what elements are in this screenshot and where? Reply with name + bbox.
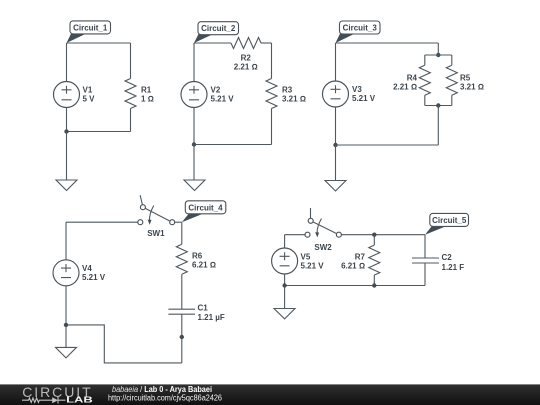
svg-text:6.21 Ω: 6.21 Ω bbox=[341, 262, 365, 271]
wire: circuit1 ground lead bbox=[66, 132, 68, 181]
svg-text:Circuit_5: Circuit_5 bbox=[432, 216, 467, 225]
wire: circuit2 ground lead bbox=[193, 145, 195, 181]
wire: circuit1 right branch upper bbox=[130, 43, 132, 79]
capacitor C1 bbox=[168, 309, 195, 314]
wire: circuit2 bottom rail bbox=[194, 144, 272, 146]
svg-text:Circuit_2: Circuit_2 bbox=[201, 24, 236, 33]
wire: circuit3 ground lead bbox=[335, 145, 337, 181]
node callout Circuit_2 bbox=[194, 22, 239, 43]
svg-text:5.21 V: 5.21 V bbox=[352, 94, 376, 103]
resistor R5 bbox=[446, 55, 457, 106]
svg-text:5.21 V: 5.21 V bbox=[82, 273, 106, 282]
ground: circuit3 bbox=[325, 181, 346, 192]
svg-text:6.21 Ω: 6.21 Ω bbox=[192, 261, 216, 270]
wire: circuit3 top rail bbox=[336, 42, 439, 44]
wire: circuit3 left branch lower bbox=[335, 107, 337, 145]
svg-text:1 Ω: 1 Ω bbox=[141, 95, 154, 104]
junction: parallel bottom node bbox=[436, 103, 440, 107]
wire: circuit4 left branch upper bbox=[65, 222, 67, 260]
voltage source V5 bbox=[272, 248, 298, 274]
svg-text:V3: V3 bbox=[352, 85, 362, 94]
wire: C2 top lead bbox=[424, 235, 426, 258]
svg-text:1.21 F: 1.21 F bbox=[442, 263, 465, 272]
junction: R7 bottom node bbox=[372, 283, 376, 287]
ground: circuit2 bbox=[184, 180, 205, 191]
svg-text:5 V: 5 V bbox=[83, 95, 96, 104]
voltage source V4 bbox=[53, 260, 79, 286]
voltage source V2 bbox=[181, 82, 207, 108]
junction: circuit3 bottom node bbox=[333, 143, 337, 147]
wire: R6 to C1 bbox=[181, 274, 183, 309]
junction: circuit5 ground node bbox=[282, 283, 286, 287]
svg-text:Circuit_4: Circuit_4 bbox=[188, 204, 223, 213]
capacitor C2 bbox=[412, 258, 439, 263]
node callout Circuit_1 bbox=[67, 21, 111, 43]
resistor R7 bbox=[369, 245, 380, 275]
wire: circuit4 ground lead bbox=[65, 325, 67, 348]
svg-text:Circuit_3: Circuit_3 bbox=[343, 24, 378, 33]
wire: circuit4 right branch to R6 bbox=[181, 222, 183, 244]
wire: circuit4 bottom return path bbox=[66, 325, 182, 363]
svg-text:R5: R5 bbox=[460, 74, 471, 83]
switch SW1 bbox=[138, 195, 175, 225]
node callout Circuit_3 bbox=[336, 21, 381, 43]
svg-text:SW2: SW2 bbox=[314, 243, 332, 252]
wire: circuit3 bottom rail bbox=[336, 144, 439, 146]
svg-text:1.21 µF: 1.21 µF bbox=[198, 313, 225, 322]
resistor R2 bbox=[231, 38, 261, 49]
svg-text:5.21 V: 5.21 V bbox=[211, 95, 235, 104]
wire: circuit2 right branch upper bbox=[271, 43, 273, 79]
resistor R3 bbox=[266, 79, 277, 109]
wire: circuit3 left branch upper bbox=[335, 43, 337, 81]
junction: circuit4 ground node bbox=[64, 323, 68, 327]
svg-text:5.21 V: 5.21 V bbox=[301, 261, 325, 270]
wire: switch SW1 to node bbox=[175, 221, 182, 223]
svg-text:3.21 Ω: 3.21 Ω bbox=[460, 83, 484, 92]
wire: circuit3 right drop to parallel pair bbox=[437, 43, 439, 55]
wire: circuit2 left branch upper bbox=[193, 43, 195, 82]
svg-text:C2: C2 bbox=[442, 253, 453, 262]
svg-text:R4: R4 bbox=[407, 74, 418, 83]
svg-text:R3: R3 bbox=[282, 86, 293, 95]
svg-text:Circuit_1: Circuit_1 bbox=[73, 23, 108, 32]
voltage source V1 bbox=[54, 82, 80, 108]
svg-text:V4: V4 bbox=[82, 264, 92, 273]
wire: C1 down to bottom corner bbox=[181, 314, 183, 363]
svg-text:R7: R7 bbox=[355, 253, 366, 262]
wire: R7 top lead bbox=[373, 235, 375, 245]
voltage source V3 bbox=[323, 81, 349, 107]
wire: circuit2 top rail left bbox=[194, 42, 231, 44]
wire: circuit1 left branch lower bbox=[66, 108, 68, 132]
svg-text:C1: C1 bbox=[198, 304, 209, 313]
svg-text:V1: V1 bbox=[83, 86, 93, 95]
svg-text:V2: V2 bbox=[211, 86, 221, 95]
wire: parallel top bar bbox=[425, 54, 452, 56]
switch SW2 bbox=[305, 208, 341, 237]
junction: R7 top node bbox=[372, 233, 376, 237]
junction: circuit4 node below C1 bbox=[180, 335, 184, 339]
svg-text:2.21 Ω: 2.21 Ω bbox=[234, 63, 258, 72]
wire: circuit3 right branch lower bbox=[437, 106, 439, 146]
svg-text:R2: R2 bbox=[241, 54, 252, 63]
wire: circuit2 right branch lower bbox=[271, 109, 273, 145]
svg-text:3.21 Ω: 3.21 Ω bbox=[282, 95, 306, 104]
svg-text:http://circuitlab.com/cjv5qc86: http://circuitlab.com/cjv5qc86a2426 bbox=[108, 394, 222, 403]
junction: circuit2 bottom node bbox=[192, 142, 196, 146]
wire: circuit2 top rail right bbox=[261, 42, 272, 44]
node callout Circuit_5 bbox=[425, 213, 469, 234]
resistor R4 bbox=[419, 55, 430, 106]
svg-text:2.21 Ω: 2.21 Ω bbox=[393, 83, 417, 92]
wire: circuit5 ground lead bbox=[284, 286, 286, 309]
svg-text:V5: V5 bbox=[301, 252, 311, 261]
wire: switch SW2 to C2 branch bbox=[341, 234, 425, 236]
svg-text:LAB: LAB bbox=[66, 396, 93, 405]
wire: C2 bottom lead bbox=[424, 263, 426, 286]
wire: circuit2 left branch lower bbox=[193, 108, 195, 145]
wire: circuit5 top rail left of switch bbox=[285, 234, 305, 236]
wire: circuit1 top rail bbox=[67, 42, 131, 44]
wire: parallel bottom bar bbox=[425, 105, 452, 107]
wire: R7 bottom lead bbox=[373, 275, 375, 285]
svg-text:R1: R1 bbox=[141, 86, 152, 95]
wire: circuit4 top rail left of switch bbox=[66, 221, 138, 223]
resistor R1 bbox=[125, 79, 136, 109]
wire: circuit5 left branch upper bbox=[284, 235, 286, 248]
wire: circuit1 bottom rail bbox=[67, 131, 131, 133]
wire: circuit1 left branch upper bbox=[66, 43, 68, 82]
junction: parallel top node bbox=[436, 53, 440, 57]
junction: circuit1 bottom node bbox=[64, 129, 68, 133]
ground: circuit5 bbox=[274, 309, 295, 319]
ground: circuit4 bbox=[56, 347, 77, 358]
svg-text:babaeia / Lab 0 - Arya Babaei: babaeia / Lab 0 - Arya Babaei bbox=[112, 385, 212, 394]
wire: circuit4 left branch lower bbox=[65, 286, 67, 325]
wire: circuit1 right branch lower bbox=[130, 109, 132, 132]
wire: circuit5 bottom rail bbox=[285, 285, 425, 287]
svg-text:SW1: SW1 bbox=[147, 229, 165, 238]
node callout Circuit_4 bbox=[182, 201, 226, 222]
wire: circuit5 left branch lower bbox=[284, 274, 286, 286]
footer bar bbox=[0, 384, 540, 405]
svg-text:R6: R6 bbox=[192, 251, 203, 260]
ground: circuit1 bbox=[56, 180, 77, 191]
resistor R6 bbox=[176, 244, 187, 274]
logo resistor and diode glyph bbox=[22, 397, 66, 404]
